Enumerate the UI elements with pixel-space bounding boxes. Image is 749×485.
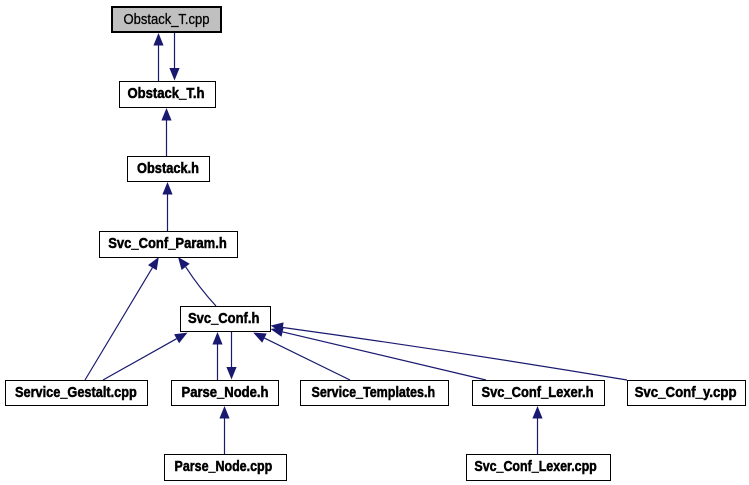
svg-text:Svc_Conf_y.cpp: Svc_Conf_y.cpp: [635, 385, 737, 401]
svg-text:Parse_Node.h: Parse_Node.h: [182, 385, 269, 401]
svg-text:Svc_Conf_Lexer.h: Svc_Conf_Lexer.h: [482, 385, 594, 401]
svg-text:Svc_Conf_Param.h: Svc_Conf_Param.h: [108, 236, 227, 252]
svg-text:Svc_Conf.h: Svc_Conf.h: [188, 311, 259, 327]
svg-text:Obstack_T.cpp: Obstack_T.cpp: [124, 12, 210, 28]
svg-text:Obstack_T.h: Obstack_T.h: [128, 86, 205, 102]
svg-text:Service_Gestalt.cpp: Service_Gestalt.cpp: [15, 385, 137, 401]
svg-text:Service_Templates.h: Service_Templates.h: [312, 385, 436, 401]
svg-text:Obstack.h: Obstack.h: [137, 161, 199, 177]
svg-text:Svc_Conf_Lexer.cpp: Svc_Conf_Lexer.cpp: [474, 459, 596, 475]
svg-text:Parse_Node.cpp: Parse_Node.cpp: [175, 459, 273, 475]
